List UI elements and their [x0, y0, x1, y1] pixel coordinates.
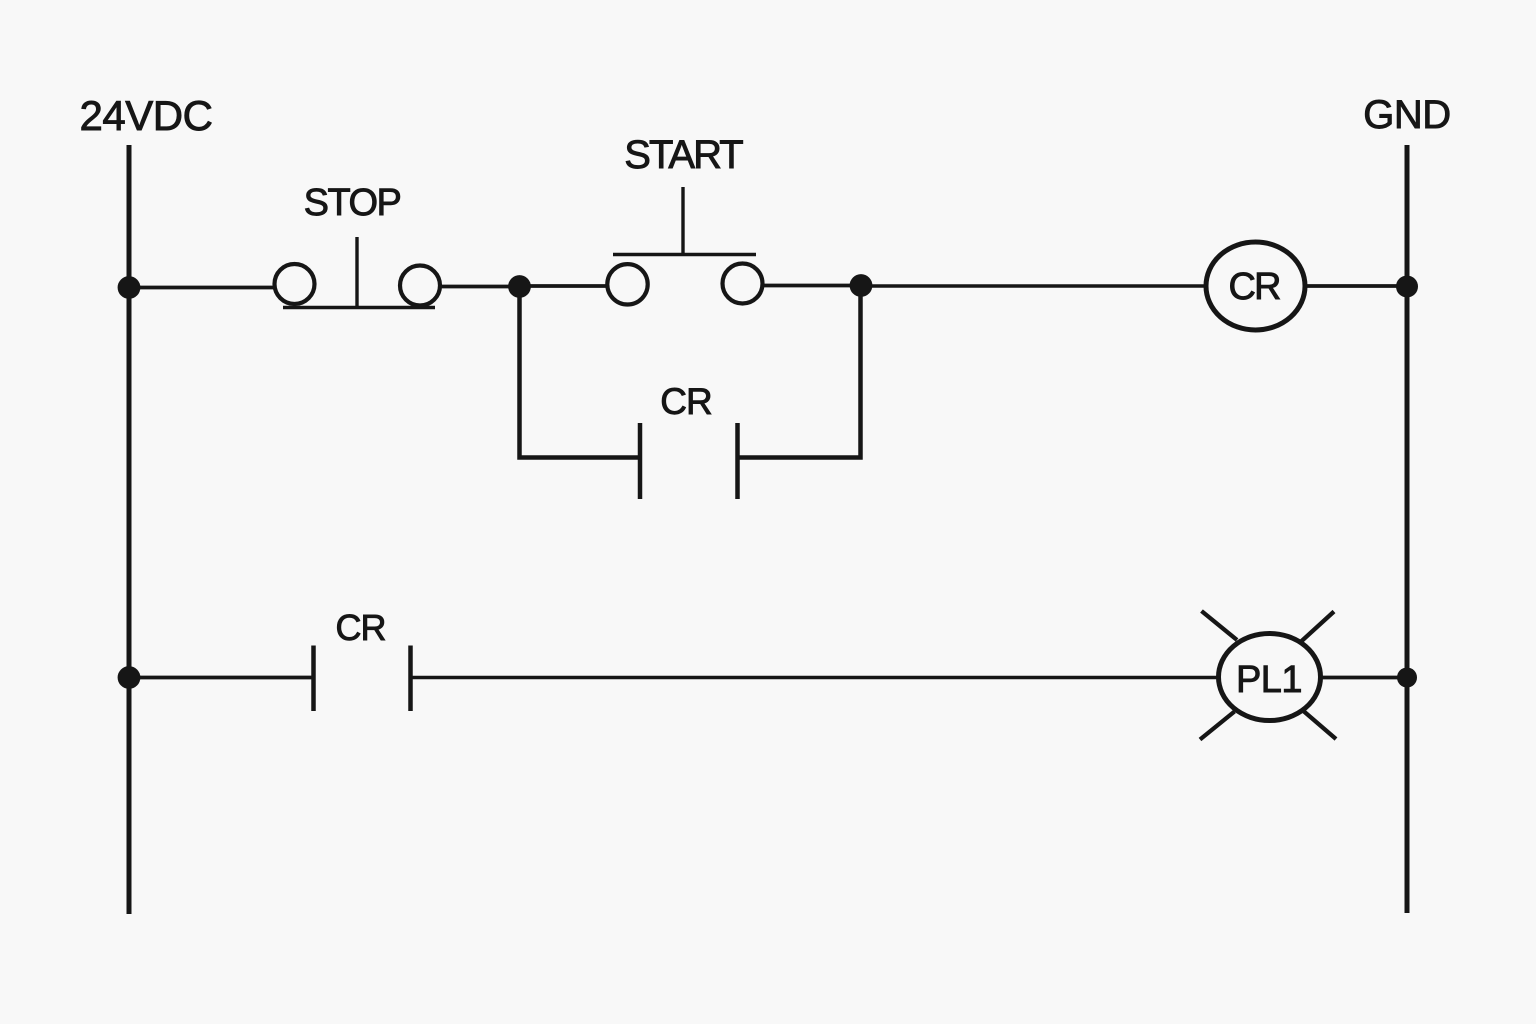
label START: [624, 133, 743, 177]
left power rail 24VDC: [127, 145, 132, 914]
svg-text:GND: GND: [1363, 93, 1450, 137]
label CR rung2 contact: [336, 607, 386, 648]
pilot light PL1: [1200, 611, 1336, 740]
svg-text:STOP: STOP: [304, 182, 401, 224]
svg-text:CR: CR: [336, 607, 386, 648]
pushbutton START (NO): [607, 187, 762, 304]
wire STOP to node A: [440, 285, 519, 289]
wire contact CR to pilot light PL1: [411, 676, 1219, 680]
node C junction right rail rung1: [1396, 276, 1418, 298]
wire rung1 left rail to STOP: [129, 286, 276, 290]
label 24VDC: [80, 92, 213, 139]
label PL1: [1236, 659, 1302, 701]
svg-text:CR: CR: [660, 381, 711, 422]
svg-text:CR: CR: [1229, 266, 1280, 308]
wire branch down from node A to contact CR aux left: [520, 287, 641, 458]
svg-text:START: START: [624, 133, 743, 177]
relay coil CR: [1206, 242, 1305, 330]
wire node B to coil CR: [861, 284, 1206, 288]
wire PL1 to right rail: [1321, 676, 1408, 680]
node D junction left rail rung2: [118, 666, 141, 689]
node E junction right rail rung2: [1397, 668, 1417, 688]
wire START to node B: [763, 284, 861, 288]
wire rung2 left rail to contact CR: [129, 676, 314, 680]
contact CR holding (NO): [640, 423, 738, 499]
label CR holding contact: [660, 381, 711, 422]
wire coil CR to right rail: [1305, 284, 1407, 288]
node A junction: [508, 275, 531, 298]
label STOP: [304, 182, 401, 224]
node F junction left rail rung1: [118, 276, 141, 299]
contact CR rung2 (NO): [314, 646, 411, 712]
label GND: [1363, 93, 1450, 137]
label CR coil: [1229, 266, 1280, 308]
node B junction: [850, 274, 873, 297]
wire node A to START: [520, 284, 609, 288]
svg-text:PL1: PL1: [1236, 659, 1302, 701]
svg-text:24VDC: 24VDC: [80, 92, 213, 139]
wire contact CR aux right up to node B: [738, 287, 861, 458]
right ground rail GND: [1405, 145, 1410, 913]
pushbutton STOP (NC): [275, 237, 441, 308]
